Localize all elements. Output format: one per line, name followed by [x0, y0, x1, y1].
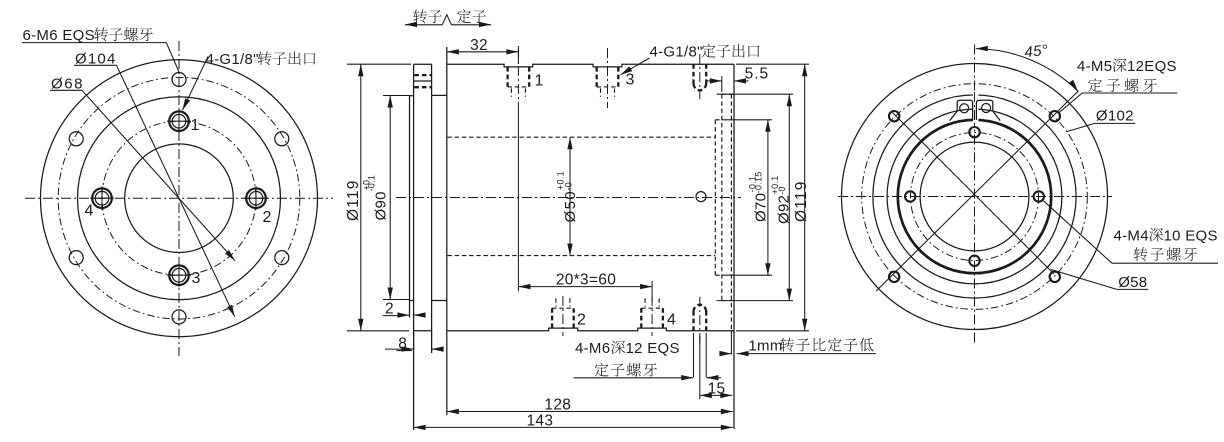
label Ø104 underline [74, 64, 117, 66]
G1/8 stator port 4 (bottom) [641, 296, 663, 336]
dim Ø119 left: extension lines [347, 63, 411, 65]
G1/8 stator port 3 (top) [597, 48, 619, 108]
svg-text:4: 4 [667, 312, 676, 329]
body bottom edge with port notches [447, 328, 734, 331]
G1/8 rotor port 3 (left view) [167, 263, 191, 287]
label rotor (zhuanzi) top [413, 9, 427, 23]
circlip lug left [950, 100, 973, 120]
label 4-M5 underline [1082, 92, 1177, 94]
dim Ø119 right: extension lines [736, 63, 809, 65]
label stator (dingzi) top [457, 9, 471, 23]
flange M6 thread dashes top [414, 74, 431, 76]
leader 4-G1/8 to port 1 [183, 57, 209, 111]
bore hidden line bottom (Ø50) [448, 255, 716, 257]
boss bottom edge [410, 300, 414, 302]
leader 6-M6 to top hole [166, 43, 179, 72]
svg-text:-0: -0 [777, 186, 787, 195]
svg-text:Ø119: Ø119 [793, 180, 810, 222]
dim 2 arrows [398, 314, 409, 316]
dim 8 extension lines [413, 331, 415, 353]
leader 4-M4 to E hole [1044, 201, 1112, 263]
dim 15: extension line [699, 336, 701, 399]
dim 32 extension and line [447, 51, 519, 53]
small hole circle on center line [696, 192, 706, 202]
dim Ø50 line [569, 137, 571, 255]
G1/8 rotor port 2 (left view) [244, 186, 268, 210]
svg-text:Ø119: Ø119 [345, 179, 362, 221]
dim Ø119 right line [804, 64, 806, 331]
6x M6 rotor screw holes on Ø104 [69, 73, 289, 324]
svg-text:6-M6 EQS: 6-M6 EQS [23, 27, 95, 44]
svg-text:20*3=60: 20*3=60 [556, 272, 616, 289]
leader 4-G1/8 stator to port 3 with arrow [621, 58, 650, 75]
right view vertical center line [974, 45, 976, 346]
dim Ø90 left: extension lines [383, 95, 410, 97]
dim 20*3=60 line [518, 286, 652, 288]
svg-text:45°: 45° [1024, 42, 1049, 61]
rear stator port bottom (dome) [694, 297, 707, 345]
svg-text:3: 3 [192, 270, 201, 287]
dim Ø92: extension lines [717, 93, 794, 95]
label 4-M6 underline leader with arrow [574, 377, 690, 379]
left view outer circle Ø119 [41, 60, 318, 337]
svg-text:2: 2 [577, 312, 586, 329]
dim Ø70 line [767, 120, 769, 275]
4x M4 holes on Ø58 at 0/90/180/270 [905, 127, 1044, 266]
rotor/stator divider caret [442, 15, 451, 25]
rotor hub top edge [432, 94, 447, 96]
svg-text:-0: -0 [564, 182, 574, 191]
left view bolt circle Ø68 (dash-dot) [102, 121, 256, 275]
svg-text:-0.1: -0.1 [366, 175, 376, 192]
right view bolt circle Ø102 (dash-dot) [862, 84, 1088, 310]
svg-text:1: 1 [535, 73, 544, 90]
left view horizontal center line [25, 197, 333, 199]
rotor boss left face (2mm step) [409, 96, 411, 318]
svg-text:Ø58: Ø58 [1118, 274, 1147, 291]
flange right face line [431, 64, 433, 353]
svg-text:4-M4: 4-M4 [1114, 227, 1149, 244]
dim Ø119 left line [360, 64, 362, 331]
dim Ø90 left line [389, 96, 391, 300]
body top edge with port notches [447, 64, 734, 67]
leader Ø68 diagonal through center [82, 90, 235, 260]
svg-text:Ø70: Ø70 [752, 193, 769, 222]
right view diagonal NE-SW [876, 91, 1078, 291]
circlip lug right [976, 100, 1000, 120]
G1/8 stator port 2 (bottom) [552, 296, 574, 336]
label Ø102 underline [1095, 122, 1136, 124]
svg-text:10 EQS: 10 EQS [1164, 227, 1218, 244]
right view bore circle [920, 142, 1029, 251]
dim 128 line [447, 411, 733, 413]
svg-text:12EQS: 12EQS [1127, 58, 1177, 75]
svg-text:Ø50: Ø50 [562, 190, 579, 223]
label 6-M6 underline [22, 42, 166, 44]
right view outer circle [842, 64, 1108, 330]
white gap for circlip slot [973, 93, 979, 124]
svg-text:4: 4 [85, 203, 94, 220]
boss top edge [410, 95, 414, 97]
svg-text:1: 1 [191, 117, 200, 134]
right view groove circle r87.4 [887, 109, 1062, 284]
dim Ø92 line [788, 94, 790, 300]
rear stator port top (dome) [694, 54, 707, 99]
leader Ø58 to bolt circle [1051, 270, 1117, 290]
svg-text:32: 32 [470, 37, 488, 54]
svg-text:5.5: 5.5 [745, 66, 770, 83]
svg-text:3: 3 [626, 72, 635, 89]
rotor right face (1mm recessed, hidden) [730, 94, 732, 331]
dim 20*3=60 extension lines [517, 108, 519, 291]
opposite arrow at rear port right wall [706, 377, 721, 379]
circlip lug hole left [960, 104, 969, 113]
label rotor thread (M4) line2 [1134, 247, 1148, 261]
svg-text:12 EQS: 12 EQS [626, 340, 680, 357]
dim 143 line [414, 426, 733, 428]
45 degree dimension arc with arrows [976, 49, 1078, 92]
leader Ø102 to bolt circle [1067, 123, 1095, 131]
G1/8 stator port 1 (top) [508, 48, 530, 108]
left view bolt circle Ø104 (dash-dot) [58, 77, 300, 319]
rotor hub bottom edge [432, 300, 447, 302]
svg-text:Ø90: Ø90 [373, 191, 390, 220]
label 4-M4 underline [1112, 262, 1218, 264]
left view center bore circle [125, 144, 234, 253]
dim Ø70: extension lines [722, 119, 772, 121]
svg-text:4-M5: 4-M5 [1077, 58, 1112, 75]
dim 15 line with arrows [700, 394, 733, 396]
arrow pointing right at rotor face step [722, 353, 731, 355]
label Ø68 underline [50, 89, 82, 91]
leader Ø104 diagonal through center [117, 65, 235, 316]
dim 5.5: arrows and text [707, 80, 722, 82]
svg-text:Ø92: Ø92 [775, 195, 792, 224]
center line segment through circlip slot [974, 92, 976, 126]
rear port wall extension lines below body [693, 333, 695, 377]
svg-text:128: 128 [544, 397, 571, 414]
G1/8 rotor port 4 (left view) [90, 186, 114, 210]
flange left face line [413, 64, 415, 430]
svg-text:1mm: 1mm [748, 337, 782, 354]
label 1mm underline leader with arrow [737, 353, 876, 355]
label Ø58 underline [1117, 288, 1149, 290]
circlip lug hole right [982, 104, 991, 113]
bore hidden line top (Ø50) [448, 136, 716, 138]
leader 4-M5 to NE hole [1059, 93, 1083, 113]
svg-text:-0.15: -0.15 [753, 171, 763, 193]
svg-text:143: 143 [527, 413, 554, 430]
rotor/stator divider marker line with arrows [405, 24, 442, 26]
flange bottom edge [414, 330, 432, 332]
right view retaining ring (bold) [898, 120, 1051, 273]
svg-text:4-G1/8": 4-G1/8" [206, 51, 259, 68]
right view diagonal NW-SE [893, 113, 1055, 275]
left view vertical center line [178, 41, 180, 356]
G1/8 rotor port 1 (left view) [167, 109, 191, 133]
right view circle r101.6 [873, 95, 1076, 298]
flange M6 hole bottom line [414, 80, 432, 82]
svg-text:15: 15 [708, 380, 726, 397]
flange top edge [414, 63, 432, 65]
svg-text:4-M6: 4-M6 [575, 340, 610, 357]
right view horizontal center line [838, 196, 1112, 198]
middle horizontal center line [396, 197, 741, 199]
label stator thread line2 [595, 363, 609, 377]
label stator thread (M5) line2 [1088, 78, 1102, 92]
rear bore hidden lines Ø70 [714, 120, 716, 275]
stator right end face [733, 64, 735, 429]
dim 8 arrows [385, 348, 414, 350]
stator body left edge [446, 47, 448, 415]
svg-text:2: 2 [263, 209, 272, 226]
rear bore hidden lines Ø92 recess [721, 94, 723, 300]
left view flange step circle Ø90 [78, 97, 281, 300]
svg-text:Ø102: Ø102 [1096, 107, 1134, 124]
svg-text:4-G1/8": 4-G1/8" [650, 44, 703, 61]
4x M5 holes on Ø102 at 45deg [889, 111, 1060, 282]
right view bolt circle Ø58 (dash-dot) [911, 133, 1039, 261]
